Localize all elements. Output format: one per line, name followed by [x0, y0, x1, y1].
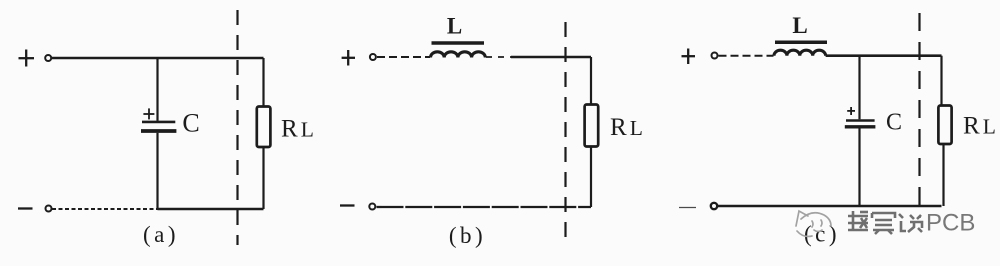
output terminal - (a): [46, 206, 52, 212]
minus polarity mark (c): [679, 207, 696, 209]
minus polarity mark (a): [18, 207, 33, 209]
wire top (a): [52, 57, 264, 60]
wire bottom right (a): [158, 208, 264, 211]
dashed boundary line (a): [236, 10, 238, 245]
wire bottom left (a): [52, 208, 158, 210]
capacitor C polarity + (a): [143, 108, 154, 119]
resistor RL (a): [257, 107, 271, 148]
watermark logo: [796, 211, 831, 236]
svg-text:L: L: [792, 13, 807, 38]
minus polarity mark (b): [340, 204, 355, 206]
wire top faded segment (b): [486, 56, 511, 58]
svg-text:C: C: [182, 109, 199, 138]
wire RL top lead (b): [590, 57, 592, 105]
watermark hanzi shuo: [899, 214, 922, 232]
wire input to inductor (c): [719, 55, 774, 57]
svg-text:PCB: PCB: [926, 210, 975, 237]
wire RL bottom lead (c): [942, 144, 944, 206]
wire input to inductor (b): [377, 56, 430, 58]
input terminal + (c): [712, 53, 718, 59]
svg-text:RL: RL: [610, 114, 646, 141]
plus polarity mark (c): [682, 49, 696, 65]
wire capacitor top lead (a): [156, 58, 158, 121]
wire capacitor bottom lead (c): [858, 129, 860, 207]
wire capacitor top lead (c): [858, 56, 860, 120]
resistor RL (b): [585, 105, 599, 147]
resistor RL (c): [938, 106, 951, 145]
watermark hanzi han: [872, 213, 895, 234]
wire top (c): [826, 54, 942, 57]
inductor L winding (c): [774, 50, 826, 56]
svg-text:(b): (b): [449, 223, 486, 248]
svg-text:L: L: [447, 14, 462, 39]
dashed boundary line (c): [918, 13, 920, 218]
wire RL top lead (a): [262, 58, 264, 107]
watermark hanzi mu: [848, 211, 868, 231]
svg-text:RL: RL: [281, 116, 317, 143]
input terminal + (a): [45, 55, 51, 61]
input terminal + (b): [370, 54, 376, 60]
output terminal - (c): [711, 203, 717, 209]
svg-text:RL: RL: [963, 113, 999, 140]
inductor L core bar (c): [775, 41, 827, 45]
capacitor C plates (a): [141, 122, 176, 131]
inductor L core bar (b): [432, 41, 485, 45]
capacitor C plates (c): [845, 121, 876, 127]
wire top (b): [511, 56, 591, 58]
plus polarity mark (a): [19, 50, 35, 67]
svg-text:(a): (a): [143, 222, 179, 247]
wire RL bottom lead (b): [590, 147, 592, 208]
wire bottom (b): [377, 206, 592, 208]
inductor L winding (b): [431, 52, 486, 58]
svg-text:C: C: [886, 109, 902, 135]
plus polarity mark (b): [342, 50, 355, 66]
dashed boundary line (b): [564, 22, 566, 242]
wire capacitor bottom lead (a): [156, 133, 158, 209]
capacitor C polarity + (c): [847, 107, 855, 115]
wire RL bottom lead (a): [262, 147, 264, 209]
wire RL top lead (c): [940, 56, 942, 106]
wire bottom (c): [718, 205, 942, 208]
output terminal - (b): [369, 204, 375, 210]
